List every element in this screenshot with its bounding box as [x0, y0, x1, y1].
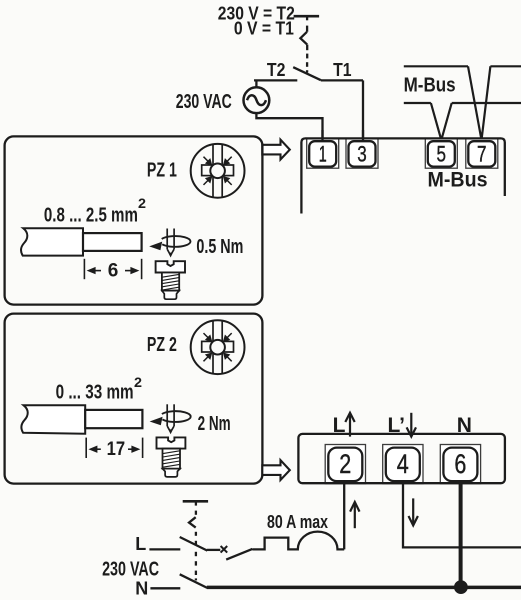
- torque rotation arrow PZ1: [162, 236, 191, 247]
- arrow up (load out): [350, 502, 359, 528]
- mechanical link dashed line (bottom): [183, 500, 208, 503]
- svg-text:M-Bus: M-Bus: [428, 169, 488, 192]
- svg-text:T1: T1: [333, 60, 351, 80]
- tariff control bar: [294, 15, 320, 18]
- strip dimension PZ1: [84, 259, 141, 279]
- M-Bus wires: [404, 66, 521, 140]
- torque rotation arrow PZ2: [162, 411, 191, 422]
- terminal 7: [466, 139, 498, 169]
- tariff control note text: [218, 4, 295, 39]
- svg-text:1: 1: [319, 141, 327, 166]
- terminal 2: [325, 445, 365, 484]
- arrow from box PZ1 to meter: [262, 140, 290, 160]
- svg-text:5: 5: [437, 141, 447, 166]
- svg-text:0 ... 33 mm: 0 ... 33 mm: [56, 381, 134, 403]
- mechanical link dashed line (top): [300, 17, 307, 72]
- connection point x: [221, 546, 228, 553]
- svg-text:T2: T2: [267, 60, 286, 80]
- svg-text:PZ 1: PZ 1: [147, 160, 177, 182]
- wire source top stub: [255, 80, 257, 87]
- wire into terminal 3: [362, 130, 364, 142]
- screwdriver PZ1: [167, 229, 174, 256]
- svg-text:230 VAC: 230 VAC: [102, 558, 159, 580]
- cable conductor PZ2: [85, 410, 142, 428]
- wire left of switch: [254, 79, 297, 81]
- svg-text:6: 6: [454, 449, 466, 479]
- wire terminal 4 down and right: [403, 482, 521, 548]
- strip dimension PZ2: [86, 438, 142, 458]
- AC source circle: [244, 87, 270, 113]
- meter bottom outline: [298, 434, 505, 483]
- wire after L switch: [207, 549, 221, 551]
- wire M-Bus drop to terminal 7: [468, 66, 490, 140]
- terminal 4: [383, 445, 423, 484]
- wire M-Bus upper line right: [490, 65, 521, 67]
- arrow down (load return): [409, 498, 418, 525]
- svg-text:L: L: [135, 534, 146, 554]
- meter top outline: [301, 138, 504, 213]
- arrow down label: [407, 413, 416, 437]
- svg-text:0.8 ... 2.5 mm: 0.8 ... 2.5 mm: [44, 205, 138, 227]
- screw PZ2: [157, 437, 186, 477]
- svg-text:M-Bus: M-Bus: [404, 75, 456, 97]
- svg-text:0.5 Nm: 0.5 Nm: [196, 236, 243, 258]
- terminal 1: [307, 139, 339, 169]
- svg-text:80 A max: 80 A max: [267, 512, 328, 532]
- arrow from box PZ2 to meter: [262, 460, 290, 480]
- screwdriver PZ2: [167, 404, 174, 432]
- box PZ 2: [5, 314, 263, 484]
- svg-text:3: 3: [357, 141, 367, 166]
- box PZ 1: [5, 136, 263, 304]
- neutral line (thick): [207, 586, 521, 590]
- svg-text:230 VAC: 230 VAC: [176, 91, 232, 113]
- wire L in: [149, 548, 180, 550]
- wire M-Bus lower line right: [452, 102, 521, 104]
- junction node N: [454, 580, 468, 594]
- fuse lead blade: [226, 549, 252, 560]
- svg-text:N: N: [135, 579, 148, 599]
- svg-text:PZ 2: PZ 2: [147, 334, 177, 356]
- switch T2/T1: [254, 67, 363, 142]
- svg-text:17: 17: [107, 439, 126, 460]
- svg-text:2: 2: [134, 374, 142, 390]
- wire N in: [150, 587, 180, 589]
- pozidriv symbol PZ1: [191, 144, 245, 198]
- wire source bottom to terminal 1: [256, 113, 322, 142]
- svg-text:2 Nm: 2 Nm: [198, 413, 231, 435]
- svg-text:2: 2: [339, 449, 351, 479]
- wire into terminal 1: [321, 130, 323, 142]
- wire right of switch: [321, 79, 363, 81]
- terminal 3: [346, 139, 378, 169]
- terminal 6: [440, 445, 480, 484]
- pozidriv symbol PZ2: [191, 320, 245, 374]
- screw PZ1: [156, 261, 185, 299]
- cable insulation PZ2: [21, 405, 85, 433]
- cable insulation PZ1: [21, 228, 83, 255]
- svg-text:0 V = T1: 0 V = T1: [234, 19, 294, 39]
- wire M-Bus upper line left: [404, 65, 468, 67]
- svg-text:6: 6: [108, 261, 119, 282]
- wire T1 down to terminal 3: [362, 80, 364, 142]
- wire terminal 6 down (neutral, thick): [459, 482, 463, 588]
- svg-text:2: 2: [138, 195, 146, 211]
- arrow up label: [345, 413, 354, 437]
- switch blade: [293, 67, 321, 80]
- terminal 5: [425, 139, 457, 169]
- svg-text:7: 7: [477, 141, 487, 166]
- wire M-Bus lower line left: [404, 102, 431, 104]
- wire terminal 2 down: [343, 482, 345, 550]
- switch L blade: [180, 537, 208, 551]
- cable conductor PZ1: [83, 233, 142, 251]
- wire M-Bus drop to terminal 5: [431, 103, 452, 140]
- switch N blade: [180, 574, 208, 588]
- fuse 80A (bump symbols): [252, 532, 344, 550]
- svg-text:4: 4: [397, 449, 409, 479]
